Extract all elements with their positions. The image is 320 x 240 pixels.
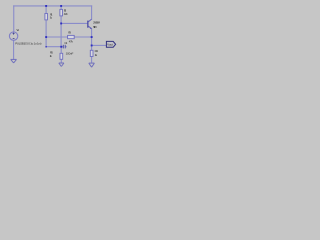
port Vout [106, 41, 115, 47]
ground under R4 [89, 63, 95, 67]
wire y37 right of R3 [74, 36, 91, 38]
node corner (46,46.7) [45, 46, 47, 48]
voltage source V1 [9, 32, 17, 40]
resistor R3 (horizontal) [68, 35, 75, 38]
background [0, 0, 120, 72]
wire lower horizontal to node Y [46, 46, 61, 48]
wire V1 bottom to ground [13, 40, 15, 59]
node dot R1 top [45, 5, 47, 7]
svg-text:PULSE(0 5 0 1u 1u 1m): PULSE(0 5 0 1u 1u 1m) [15, 42, 41, 46]
svg-text:NPN: NPN [93, 25, 97, 29]
resistor R5 (bottom) [60, 53, 63, 59]
svg-text:C1: C1 [64, 41, 67, 45]
node dot emitter-Vout [91, 45, 93, 47]
wire emitter vertical lower [91, 57, 93, 63]
wire top rail [14, 5, 92, 7]
ground under R5 [59, 63, 64, 67]
node dot base [60, 23, 62, 25]
resistor R1 [45, 14, 48, 20]
svg-text:2N3904: 2N3904 [93, 20, 100, 24]
capacitor C1 [63, 45, 65, 49]
wire collector [91, 6, 93, 19]
wire left vertical V1 top [13, 6, 15, 32]
wire R2 bottom vertical [60, 16, 62, 47]
node dot R2 top [60, 5, 62, 7]
wire y37 left of R3 [46, 36, 68, 38]
wire base [61, 22, 87, 24]
wire Vout [92, 44, 107, 46]
node dot Y [60, 46, 62, 48]
wire R1 top lead [45, 6, 47, 14]
wire cap right lead [64, 46, 67, 48]
svg-text:Vout: Vout [107, 43, 113, 47]
svg-text:R3: R3 [68, 31, 71, 35]
wire R5 top lead [60, 47, 62, 54]
wire R2 top lead [60, 6, 62, 9]
svg-text:100nF: 100nF [66, 51, 74, 55]
ground under V1 [11, 59, 17, 63]
wire R5 bottom lead [60, 59, 62, 63]
svg-text:47k: 47k [69, 39, 74, 43]
transistor Q1 [87, 19, 92, 29]
svg-text:4.7k: 4.7k [64, 12, 68, 16]
node dot emitter-R3 [91, 36, 93, 38]
wire cap left lead [61, 46, 63, 48]
resistor R2 [60, 9, 63, 16]
wire R1 bottom vertical [45, 20, 47, 47]
resistor R4 (emitter) [90, 50, 93, 56]
svg-text:V1: V1 [16, 28, 19, 32]
wire emitter vertical upper [91, 29, 93, 51]
node dot X at (46,37) [45, 36, 47, 38]
